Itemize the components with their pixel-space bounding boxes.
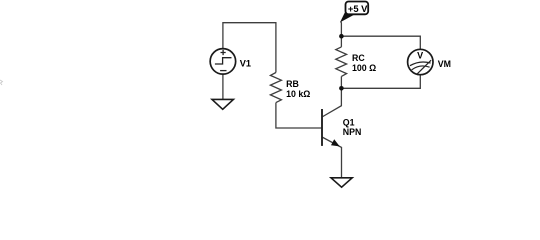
svg-text:Q1: Q1 [343, 117, 355, 127]
svg-text:10 kΩ: 10 kΩ [286, 89, 310, 99]
svg-text:V1: V1 [240, 59, 251, 69]
svg-text:RB: RB [286, 79, 299, 89]
svg-text:100 Ω: 100 Ω [352, 63, 376, 73]
svg-text:RC: RC [352, 53, 365, 63]
svg-text:+5 V: +5 V [348, 3, 368, 14]
svg-text:V: V [417, 51, 423, 61]
svg-text:VM: VM [438, 59, 451, 69]
svg-text:NPN: NPN [343, 127, 362, 137]
